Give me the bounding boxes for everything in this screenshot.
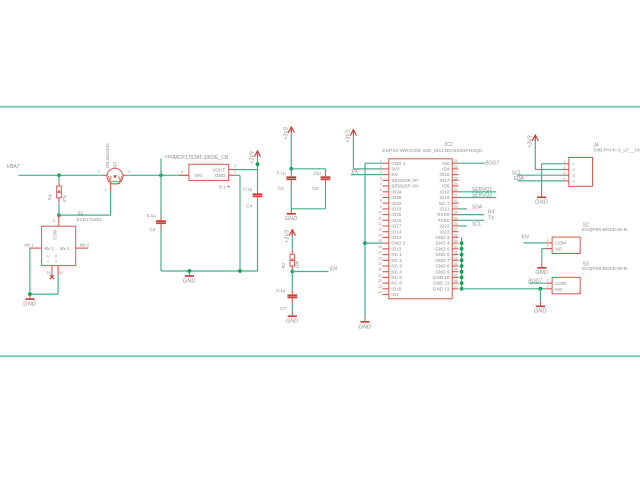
svg-text:SENSOR VN: SENSOR VN (391, 184, 418, 189)
svg-text:IC2: IC2 (445, 142, 453, 148)
IC2 pin 13 IO14 (378, 228, 402, 235)
wire VOUT to +3V3 (235, 169, 258, 171)
svg-text:S1: S1 (46, 271, 50, 275)
svg-text:35: 35 (454, 216, 458, 220)
wire C6 stub (325, 169, 327, 172)
net label TX (488, 215, 495, 221)
J4 pin 3 (563, 171, 576, 178)
svg-text:RXD0: RXD0 (437, 212, 450, 217)
svg-text:SERVO2: SERVO2 (472, 193, 492, 199)
svg-text:U: U (47, 255, 50, 259)
svg-text:3: 3 (181, 170, 183, 174)
wire C4 to gnd rail (257, 203, 259, 271)
capacitor C3 (147, 213, 166, 232)
svg-text:IO12: IO12 (391, 235, 401, 240)
svg-text:4: 4 (564, 177, 566, 181)
svg-text:38: 38 (454, 233, 458, 237)
svg-text:30: 30 (454, 188, 458, 192)
svg-text:10k: 10k (295, 260, 300, 268)
junction GND pin row 15 (460, 241, 464, 245)
wire S3 gnd down (539, 289, 541, 302)
wire IO21 SDA (459, 208, 467, 210)
IC2 pin 1 GND 1 (380, 159, 406, 166)
wire S2 pin2 down (541, 249, 543, 263)
ground GND (regulator) (183, 271, 196, 284)
svg-text:R4: R4 (48, 194, 53, 200)
op-amp U1 ESP32 module body IC2 (389, 159, 452, 299)
label IC2 designator (445, 142, 453, 148)
svg-text:SCL: SCL (472, 221, 482, 227)
svg-text:GND 4: GND 4 (435, 241, 450, 246)
svg-text:Q1: Q1 (112, 161, 118, 168)
switch S2 body (552, 237, 580, 253)
svg-text:0.1µ: 0.1µ (243, 186, 252, 191)
IC2 pin 8 IO32 (380, 199, 402, 206)
wire C5 down (290, 186, 292, 209)
svg-text:GND 10: GND 10 (433, 275, 450, 280)
label S2 value (582, 227, 627, 233)
wire S1-S2 down (57, 276, 59, 294)
IC2 pin 39 GND 4 (435, 239, 458, 246)
wire +3V3 stub (257, 157, 259, 170)
svg-text:GND 2: GND 2 (391, 241, 406, 246)
svg-text:+3V3: +3V3 (346, 130, 352, 143)
junction EN node (290, 270, 294, 274)
svg-text:o: o (48, 260, 50, 264)
IC2 pin 41 GND 6 (435, 251, 458, 258)
junction GND pin row 18 (460, 258, 464, 262)
svg-text:25: 25 (454, 159, 458, 163)
junction gnd rail / GND symbol (188, 269, 192, 273)
svg-text:1: 1 (105, 188, 107, 192)
wire RXD0 RX (459, 214, 485, 216)
IC2 pin 45 GND 10 (433, 273, 459, 280)
svg-text:GND: GND (285, 216, 298, 222)
svg-text:COM: COM (53, 230, 58, 240)
wire EN to S2 pin1 (524, 242, 547, 244)
label S3 designator (583, 262, 589, 268)
junction gnd rail / IC1 GND (238, 269, 242, 273)
net label SDA (J4) (513, 176, 524, 182)
svg-text:COM: COM (555, 281, 566, 286)
label IC1 designator (219, 184, 231, 189)
wire C5/C6 gnd rail (291, 208, 325, 210)
svg-text:22µ: 22µ (313, 171, 321, 176)
svg-text:IC1: IC1 (219, 184, 227, 189)
svg-text:GND 11: GND 11 (433, 281, 450, 286)
ground GND (S3) (534, 301, 547, 314)
junction GND pin row 20 (460, 270, 464, 274)
svg-text:C: C (53, 219, 56, 223)
svg-text:ESP32-WROOM-32E_M113EH3200PH3Q: ESP32-WROOM-32E_M113EH3200PH3Q0 (382, 148, 482, 154)
switch S1 pin Mx2 (76, 242, 90, 248)
svg-text:C6: C6 (312, 186, 318, 191)
wire +3V3 to C4 (257, 170, 259, 189)
wire EN to C7 (291, 272, 293, 290)
ground GND (battery switch) (23, 294, 36, 307)
wire TXD0 TX (459, 219, 485, 221)
svg-text:IO22: IO22 (440, 224, 450, 229)
svg-text:20: 20 (378, 268, 382, 272)
net label SCL (IO22) (472, 221, 482, 227)
svg-text:IO16: IO16 (440, 172, 450, 177)
IC2 pin 21 NC 5 (378, 273, 402, 280)
svg-text:GND 9: GND 9 (435, 269, 450, 274)
IC2 pin 6 IO34 (380, 188, 402, 195)
+3V3 supply (J4) (528, 135, 539, 148)
svg-text:8: 8 (380, 199, 382, 203)
svg-text:IO18: IO18 (440, 189, 450, 194)
svg-text:2: 2 (234, 164, 236, 168)
svg-text:14: 14 (378, 233, 382, 237)
svg-text:40: 40 (454, 245, 458, 249)
capacitor C4 (243, 186, 262, 208)
wire +3V3 to pin 3V3 (353, 168, 382, 170)
net label BOOT (IO0) (485, 160, 500, 166)
switch S3 body (552, 277, 580, 293)
svg-text:IO21: IO21 (440, 207, 450, 212)
IC2 pin 2 3V3 (380, 165, 400, 172)
IC2 pin 9 IO33 (380, 205, 402, 212)
svg-text:GND 7: GND 7 (435, 258, 450, 263)
svg-text:GND: GND (286, 319, 299, 325)
svg-text:GND: GND (215, 173, 226, 178)
wire C7 to gnd (291, 304, 293, 312)
label IC2 value ESP32-WROOM-32E (382, 148, 482, 154)
svg-text:GND: GND (358, 324, 371, 330)
svg-text:Mx 2: Mx 2 (80, 242, 90, 247)
IC2 pin 31 IO19 (440, 194, 459, 201)
switch S1 pin COM (53, 215, 59, 226)
svg-text:2: 2 (547, 244, 549, 248)
svg-text:NO: NO (555, 247, 562, 252)
svg-text:NO: NO (555, 287, 562, 292)
svg-text:S4B-PH-K-S_LF__SN: S4B-PH-K-S_LF__SN (593, 148, 640, 154)
svg-text:34: 34 (454, 211, 458, 215)
net label EN (pullup) (330, 266, 337, 272)
IC2 pin 34 RXD0 (437, 211, 458, 218)
IC2 pin 46 GND 11 (433, 279, 458, 286)
ground GND (S2) (535, 263, 548, 276)
svg-text:19: 19 (378, 262, 382, 266)
IC2 pin 4 SENSOR VP (380, 176, 418, 183)
wire VDD down to C3 (160, 175, 162, 215)
net label SERVO1 (472, 187, 492, 193)
IC2 pin 33 IO21 (440, 205, 459, 212)
svg-text:TXD0: TXD0 (438, 218, 450, 223)
svg-text:39: 39 (454, 239, 458, 243)
+3V3 supply (regulator output) (250, 151, 261, 164)
IC2 pin 27 IO16 (440, 171, 459, 178)
wire IO22 SCL (459, 225, 467, 227)
svg-text:21: 21 (378, 273, 382, 277)
svg-text:1: 1 (547, 279, 549, 283)
svg-text:S1: S1 (78, 210, 84, 215)
IC2 pin 16 IO13 (378, 245, 402, 252)
svg-text:C4: C4 (246, 204, 252, 209)
svg-text:IO2: IO2 (391, 292, 399, 297)
net label EN (ESP32) (352, 170, 359, 176)
net label RX (488, 210, 496, 216)
net label VBAT (7, 164, 21, 170)
svg-text:VBAT: VBAT (7, 164, 21, 170)
IC2 pin 10 IO25 (378, 211, 402, 218)
IC2 pin 35 TXD0 (438, 216, 459, 223)
IC2 pin 43 GND 8 (435, 262, 458, 269)
svg-text:IO34: IO34 (391, 189, 401, 194)
svg-text:IRLML6402: IRLML6402 (105, 143, 111, 168)
svg-text:NC 5: NC 5 (391, 275, 402, 280)
svg-text:IO17: IO17 (440, 178, 450, 183)
IC2 pin 37 IO23 (440, 228, 459, 235)
svg-text:IO0: IO0 (442, 161, 450, 166)
svg-text:2: 2 (98, 169, 100, 173)
IC2 pin 23 IO15 (378, 285, 402, 292)
svg-text:5: 5 (380, 182, 382, 186)
S2 pin 2 (546, 244, 552, 248)
+3V3 supply (ESP32) (346, 130, 357, 143)
svg-text:GND 3: GND 3 (435, 235, 450, 240)
wire BOOT to S3 pin1 (529, 282, 546, 284)
svg-text:IO15: IO15 (391, 286, 401, 291)
IC2 pin 15 GND 2 (378, 239, 406, 246)
svg-text:IO13: IO13 (391, 246, 401, 251)
IC2 pin 32 NC 7 (439, 199, 458, 206)
ground GND (ESP32) (358, 317, 371, 330)
svg-text:23: 23 (378, 285, 382, 289)
IC2 pin 3 EN (380, 171, 398, 178)
IC2 pin 26 IO4 (442, 165, 458, 172)
S3 pin 1 (546, 279, 552, 284)
wire regulator gnd rail (161, 270, 258, 272)
svg-text:41: 41 (454, 251, 458, 255)
IC2 pin 44 GND 9 (435, 268, 458, 275)
svg-text:GND: GND (535, 200, 548, 206)
+3V3 supply (decoupling) (284, 127, 295, 140)
IC1 pin 1 GND (229, 170, 236, 175)
svg-text:GND 12: GND 12 (433, 286, 450, 291)
label S1 designator (78, 210, 84, 215)
wire GND2 pin (365, 242, 383, 244)
svg-text:GND: GND (23, 302, 36, 308)
svg-text:IO32: IO32 (391, 201, 401, 206)
wire to gnd node (30, 293, 58, 295)
wire ESP32 right gnd rail (461, 237, 463, 288)
svg-text:IO35: IO35 (391, 195, 401, 200)
svg-text:NC 2: NC 2 (391, 258, 402, 263)
wire +3V3 down to C5 (290, 133, 292, 169)
label S2 designator (583, 222, 589, 228)
IC2 pin 22 NC 6 (378, 279, 402, 286)
svg-text:NC 4: NC 4 (391, 269, 402, 274)
ground GND (decoupling) (285, 209, 298, 222)
svg-text:C5: C5 (278, 186, 284, 191)
label S1 value ESD17S202 (77, 217, 103, 222)
svg-text:IO19: IO19 (440, 195, 450, 200)
wire IO0 BOOT (459, 162, 485, 164)
svg-text:2: 2 (564, 166, 566, 170)
svg-text:EVQP06-B043CW-B: EVQP06-B043CW-B (582, 266, 627, 272)
wire IC1 GND down (239, 175, 241, 271)
svg-text:7: 7 (380, 194, 382, 198)
label S3 value (582, 266, 627, 272)
IC2 pin 38 GND 3 (435, 233, 458, 240)
wire SDA to J4 pin4 (518, 180, 563, 182)
junction C5/C6 (289, 167, 293, 171)
wire VDD stub up (160, 159, 162, 176)
net label VDD (165, 154, 175, 159)
svg-text:37: 37 (454, 228, 458, 232)
wire Q1 to IC1 VIN (127, 174, 189, 176)
svg-text:47: 47 (454, 285, 458, 289)
IC2 pin 20 NC 4 (378, 268, 402, 275)
svg-text:o: o (55, 260, 57, 264)
J4 pin 1 (563, 160, 576, 167)
svg-text:IO26: IO26 (391, 218, 401, 223)
IC2 pin 5 SENSOR VN (380, 182, 419, 189)
svg-text:R2: R2 (281, 262, 286, 268)
svg-text:GND: GND (535, 270, 548, 276)
IC1 pin 2 VOUT (229, 164, 236, 169)
svg-text:GND 8: GND 8 (435, 264, 450, 269)
wire Mx1 down (29, 248, 31, 294)
svg-text:42: 42 (454, 256, 458, 260)
junction VBAT / R4 (57, 173, 61, 177)
svg-text:27: 27 (454, 171, 458, 175)
svg-text:1: 1 (547, 238, 549, 242)
svg-text:32: 32 (454, 199, 458, 203)
svg-text:SENSOR VP: SENSOR VP (391, 178, 418, 183)
net label SDA (IO21) (472, 204, 483, 210)
svg-text:+3V3: +3V3 (528, 135, 534, 148)
capacitor C6 (312, 171, 330, 191)
svg-text:EN: EN (330, 266, 337, 272)
wire +3V3 J4 vertical (534, 141, 536, 169)
wire EN net (292, 271, 328, 273)
svg-text:3: 3 (128, 169, 130, 173)
junction GND pin row 22 (460, 281, 464, 285)
IC2 pin 11 IO26 (378, 216, 402, 223)
IC2 pin 30 IO18 (440, 188, 459, 195)
IC2 pin 14 IO12 (378, 233, 402, 240)
svg-text:12: 12 (378, 222, 382, 226)
wire C5 stub (290, 169, 292, 172)
wire ESP32 gnd left vertical (364, 163, 366, 317)
svg-text:13: 13 (378, 228, 382, 232)
IC2 pin 47 GND 12 (433, 285, 459, 292)
resistor R4 (48, 182, 67, 203)
junction GND2 (363, 241, 367, 245)
svg-text:44: 44 (454, 268, 458, 272)
svg-text:IO23: IO23 (440, 229, 450, 234)
IC2 pin 28 IO17 (440, 176, 459, 183)
svg-text:VIN: VIN (194, 173, 202, 178)
wire GND1 pin (365, 162, 383, 164)
IC2 pin 40 GND 5 (435, 245, 458, 252)
svg-text:IO27: IO27 (391, 224, 401, 229)
svg-text:+3V3: +3V3 (285, 230, 291, 243)
wire EN to pin EN (351, 174, 383, 176)
svg-text:EN: EN (522, 235, 529, 241)
wire R4 bottom (58, 202, 60, 215)
svg-text:18: 18 (378, 256, 382, 260)
svg-text:Mx 2: Mx 2 (60, 246, 70, 251)
svg-text:0.1µ: 0.1µ (147, 213, 156, 218)
junction GND pin row 23 (460, 287, 464, 291)
svg-text:24: 24 (378, 291, 382, 295)
svg-text:10: 10 (378, 211, 382, 215)
svg-text:NC 7: NC 7 (439, 201, 450, 206)
IC2 pin 36 IO22 (440, 222, 459, 229)
wire IC1 GND stub (235, 174, 241, 176)
junction GND pin row 17 (460, 253, 464, 257)
resistor R2 (281, 250, 300, 271)
switch S1 pin Mx1 (25, 242, 42, 248)
svg-text:C3: C3 (150, 227, 156, 232)
svg-text:MCP1702AT-3302E_CB: MCP1702AT-3302E_CB (174, 155, 229, 161)
label J4 designator (593, 143, 599, 149)
wire +3V3 to J4 pin2 (535, 169, 563, 171)
svg-text:IO14: IO14 (391, 229, 401, 234)
svg-text:46: 46 (454, 279, 458, 283)
junction gnd node (28, 292, 32, 296)
bottom frame border line (0, 355, 640, 357)
net label EN (S2) (522, 235, 529, 241)
svg-text:26: 26 (454, 165, 458, 169)
ground GND (C7) (286, 311, 299, 324)
svg-text:EN: EN (391, 172, 397, 177)
svg-text:S2: S2 (59, 271, 63, 275)
svg-text:NC 1: NC 1 (391, 252, 402, 257)
label IC1 value MCP1702AT-3302E_CB (174, 155, 229, 161)
voltage regulator IC1 MCP1702 (179, 164, 229, 180)
svg-text:6: 6 (380, 188, 382, 192)
svg-text:IO33: IO33 (391, 207, 401, 212)
IC2 pin 7 IO35 (380, 194, 402, 201)
label J4 value S4B-PH-K-S (593, 148, 640, 154)
wire +3V3 to R2 (291, 236, 293, 250)
wire IO18 SERVO1 (459, 191, 497, 193)
svg-text:28: 28 (454, 176, 458, 180)
IC2 pin 42 GND 7 (435, 256, 458, 263)
svg-text:33: 33 (454, 205, 458, 209)
svg-text:GND 5: GND 5 (435, 246, 450, 251)
svg-text:22: 22 (378, 279, 382, 283)
svg-text:31: 31 (454, 194, 458, 198)
no-connect X on S1 pin (50, 275, 54, 279)
net label SERVO2 (472, 193, 492, 199)
svg-text:47k: 47k (62, 194, 67, 202)
wire IO19 SERVO2 (459, 197, 497, 199)
svg-text:NC 3: NC 3 (391, 264, 402, 269)
wire S2 pin2 stub (542, 248, 546, 250)
svg-text:36: 36 (454, 222, 458, 226)
svg-text:9: 9 (380, 205, 382, 209)
junction GND pin row 21 (460, 276, 464, 280)
wire SCL to J4 pin3 (517, 174, 563, 176)
svg-text:GND: GND (183, 278, 196, 284)
junction GND pin row 16 (460, 247, 464, 251)
svg-text:SDA: SDA (472, 204, 483, 210)
svg-text:IO25: IO25 (391, 212, 401, 217)
svg-text:3V3: 3V3 (391, 167, 400, 172)
svg-text:IO4: IO4 (442, 167, 450, 172)
wire C3 to gnd rail (160, 230, 162, 272)
IC2 pin 18 NC 2 (378, 256, 402, 263)
S3 pin 2 (546, 284, 552, 288)
IC2 pin 17 NC 1 (378, 251, 402, 258)
capacitor C5 (277, 171, 297, 191)
